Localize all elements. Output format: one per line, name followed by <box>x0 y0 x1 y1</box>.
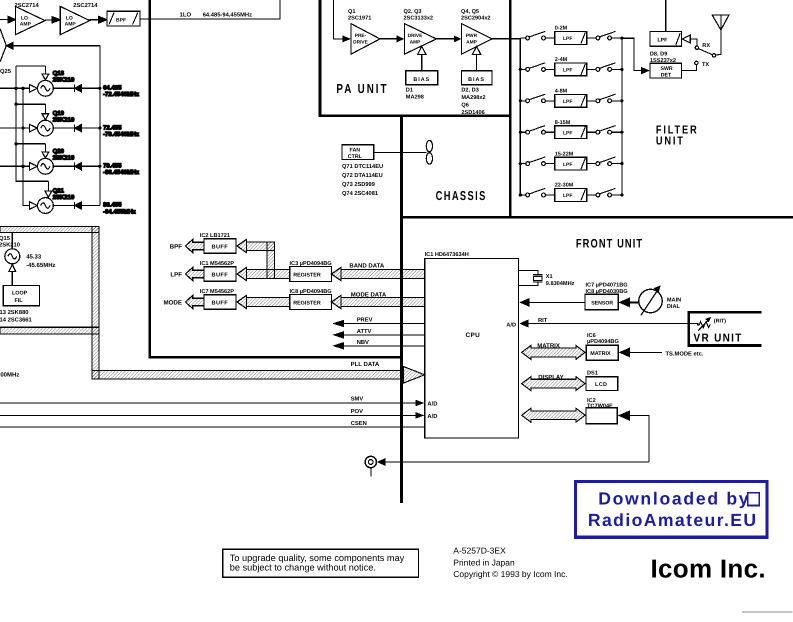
loop filter LOOP FIL box <box>3 286 39 306</box>
svg-text:IC8 µPD4030BG: IC8 µPD4030BG <box>586 289 628 295</box>
svg-text:2-4M: 2-4M <box>555 57 568 63</box>
wire PRE-DRIVE to DRIVE AMP <box>380 35 404 42</box>
wire ATTV with arrow <box>332 329 424 339</box>
watermark downloaded by box <box>576 482 767 538</box>
wire oscillator input bus B <box>23 88 30 205</box>
bus IC2 hatched double arrow <box>522 408 586 422</box>
oscillator Q21 2SK210 <box>30 181 100 213</box>
svg-text:BIAS: BIAS <box>468 77 485 83</box>
svg-text:LPF: LPF <box>563 162 572 168</box>
svg-text:RadioAmateur.EU: RadioAmateur.EU <box>588 510 758 530</box>
wire DRIVE AMP to PWR AMP <box>436 35 461 42</box>
oscillator Q20 2SK210 <box>0 144 100 174</box>
svg-text:2SK210: 2SK210 <box>53 117 75 124</box>
svg-text:A/D: A/D <box>427 413 437 420</box>
svg-text:TS.MODE etc.: TS.MODE etc. <box>666 350 704 357</box>
swr detector SWR DET box <box>620 37 681 79</box>
svg-text:A/D: A/D <box>427 400 437 407</box>
svg-text:BPF: BPF <box>116 17 126 23</box>
node bus junction dots <box>519 131 624 134</box>
oscillator Q18 2SK210 <box>0 66 100 96</box>
svg-text:DIAL: DIAL <box>667 304 681 310</box>
filter BPF box <box>107 11 140 26</box>
svg-text:RX: RX <box>702 43 710 49</box>
label Q21 2SK210 <box>53 187 75 201</box>
svg-text:2SK210: 2SK210 <box>53 77 75 84</box>
label frequency 86.455 <box>103 202 136 216</box>
svg-text:Printed in Japan: Printed in Japan <box>453 557 515 567</box>
switch RX/antenna <box>690 30 721 57</box>
diode D8 D9 open arrow <box>682 35 690 43</box>
svg-text:8-15M: 8-15M <box>555 120 571 126</box>
transistor Q25 partial amp at edge <box>0 29 6 63</box>
bus BPF row hatched band and leg <box>246 242 274 279</box>
svg-text:86.455: 86.455 <box>103 202 122 209</box>
svg-text:IC1 M54562P: IC1 M54562P <box>200 261 234 267</box>
wire chassis bottom border <box>400 216 793 219</box>
PLL unit hatched border right band <box>92 226 99 379</box>
svg-text:SWR: SWR <box>661 66 673 72</box>
crystal X1 9.8304MHz <box>519 270 543 285</box>
svg-text:-72.4549MHz: -72.4549MHz <box>103 91 139 98</box>
svg-text:D8, D9: D8, D9 <box>650 52 667 58</box>
wire PA unit left border <box>318 0 321 117</box>
label Q15 2SK210 <box>0 235 20 249</box>
svg-text:be subject to change without n: be subject to change without notice. <box>230 562 376 572</box>
wire filter unit left border <box>509 0 512 217</box>
svg-text:4-8M: 4-8M <box>555 89 568 95</box>
svg-text:IC2 LB1721: IC2 LB1721 <box>200 233 230 239</box>
wire SMV <box>0 396 437 408</box>
buffer BUFF BPF row <box>185 239 246 253</box>
svg-text:MODE: MODE <box>163 299 182 306</box>
label 45.33 -45.65MHz <box>26 254 55 269</box>
label frequency 72.455 <box>103 124 139 138</box>
svg-text:Q21: Q21 <box>53 187 65 194</box>
label Q2, Q3 2SC3133x2 <box>404 9 434 22</box>
svg-text:FRONT UNIT: FRONT UNIT <box>576 237 643 250</box>
svg-text:Q18: Q18 <box>53 70 65 77</box>
wire RIT from CPU to VR unit <box>506 318 698 329</box>
bias network box at x=405.8 <box>406 46 438 84</box>
node bus junction dots <box>519 68 624 71</box>
wire NBV with arrow <box>332 340 424 350</box>
svg-text:AMP: AMP <box>466 40 477 46</box>
svg-text:-94.455MHz: -94.455MHz <box>103 208 136 215</box>
wire PREV with arrow <box>332 318 424 328</box>
filter LPF 8-15M with switches <box>520 126 622 139</box>
bias network box at x=461.4 <box>461 46 492 84</box>
svg-text:BAND DATA: BAND DATA <box>349 263 384 270</box>
svg-text:Q4, Q5: Q4, Q5 <box>461 9 479 15</box>
wire antenna feed from top <box>665 0 667 32</box>
filter LPF 22-30M with switches <box>520 188 622 201</box>
svg-text:TX: TX <box>702 62 709 68</box>
svg-text:72.455: 72.455 <box>103 124 122 131</box>
node bus junction dots <box>519 193 624 196</box>
svg-text:Q15: Q15 <box>0 235 11 242</box>
svg-text:-45.65MHz: -45.65MHz <box>26 262 55 269</box>
wire chassis vertical border <box>400 117 403 503</box>
svg-text:79.455: 79.455 <box>103 163 122 170</box>
svg-text:PA UNIT: PA UNIT <box>336 83 388 98</box>
svg-text:LPF: LPF <box>563 130 572 136</box>
register IC8 <box>246 295 424 310</box>
label A-5257D-3EX Printed in Japan Copyright <box>453 546 567 579</box>
connector output jack <box>365 456 649 476</box>
svg-text:22-30M: 22-30M <box>555 183 574 189</box>
label LO AMP 2 <box>65 15 77 27</box>
svg-text:2SD1406: 2SD1406 <box>461 110 484 116</box>
label Q19 2SK210 <box>53 110 75 124</box>
label frequency 64.485 <box>103 85 139 99</box>
svg-text:Q73 2SD999: Q73 2SD999 <box>342 182 375 188</box>
svg-text:9.8304MHz: 9.8304MHz <box>546 281 575 287</box>
svg-text:MAIN: MAIN <box>667 297 681 303</box>
svg-text:BUFF: BUFF <box>212 300 229 306</box>
svg-text:PLL DATA: PLL DATA <box>351 361 380 368</box>
svg-text:LPF: LPF <box>658 38 668 44</box>
VR unit box border <box>689 312 762 345</box>
svg-text:A-5257D-3EX: A-5257D-3EX <box>453 546 506 556</box>
svg-text:Q14 2SC3661: Q14 2SC3661 <box>0 317 33 324</box>
svg-text:DRIVE: DRIVE <box>353 40 368 46</box>
svg-text:A/D: A/D <box>506 322 516 329</box>
label Q20 2SK210 <box>53 148 75 162</box>
svg-text:FIL: FIL <box>15 298 24 304</box>
svg-text:CSEN: CSEN <box>351 420 367 427</box>
wire arrow into BPF <box>99 17 107 23</box>
svg-text:REGISTER: REGISTER <box>293 300 321 306</box>
svg-text:Q19: Q19 <box>53 110 65 117</box>
svg-text:RIT: RIT <box>538 318 548 324</box>
svg-text:CPU: CPU <box>466 332 481 339</box>
svg-text:Copyright © 1993 by Icom Inc.: Copyright © 1993 by Icom Inc. <box>453 569 567 579</box>
label IC2 TC7W04F <box>587 398 613 410</box>
label Q1 2SC1971 <box>348 9 371 22</box>
label frequency 79.455 <box>103 163 139 177</box>
wire main unit left border <box>149 0 151 357</box>
note box to upgrade quality <box>223 549 419 577</box>
label Q13 2SK880 Q14 2SC3661 <box>0 309 33 324</box>
svg-text:PWR: PWR <box>466 33 478 39</box>
buffer BUFF MODE row <box>185 295 246 309</box>
svg-text:15-22M: 15-22M <box>555 151 574 157</box>
svg-text:LCD: LCD <box>595 382 607 388</box>
main dial with arrow <box>618 285 662 315</box>
svg-text:BPF: BPF <box>170 243 183 250</box>
svg-text:Q13 2SK880: Q13 2SK880 <box>0 309 29 316</box>
fan control FAN CTRL box <box>342 145 426 161</box>
svg-text:1LO: 1LO <box>180 12 192 19</box>
svg-text:IC7 M54562P: IC7 M54562P <box>200 289 234 295</box>
IC2 TC7W04F box <box>586 408 649 462</box>
svg-text:MATRIX: MATRIX <box>590 351 611 357</box>
switch TX <box>682 61 699 70</box>
svg-text:MODE DATA: MODE DATA <box>351 291 387 298</box>
svg-text:IC7 µPD4071BG: IC7 µPD4071BG <box>586 283 628 289</box>
filter LPF antenna box <box>650 32 682 47</box>
wire 1LO output from BPF <box>140 0 280 19</box>
wire input to PRE-DRIVE <box>333 0 342 39</box>
svg-text:IC1 HD6473634H: IC1 HD6473634H <box>425 252 469 258</box>
label 1LO 64.485-94.455MHz <box>180 12 253 19</box>
svg-text:2SC3133x2: 2SC3133x2 <box>404 16 434 22</box>
wire LO amp2 to BPF <box>90 19 99 21</box>
svg-text:REGISTER: REGISTER <box>293 272 321 278</box>
svg-text:2SK210: 2SK210 <box>53 194 75 201</box>
svg-text:MA298x2: MA298x2 <box>461 95 485 101</box>
display DS1 LCD box <box>586 377 618 391</box>
PLL unit hatched border top band <box>0 226 99 232</box>
svg-text:IC6: IC6 <box>587 333 596 339</box>
label D8, D9 1SS237x2 <box>650 52 676 64</box>
svg-text:AMP: AMP <box>65 22 77 28</box>
fan motor symbol <box>426 140 432 164</box>
artifact line bottom right <box>742 611 793 613</box>
svg-text:VR UNIT: VR UNIT <box>694 332 743 345</box>
wire arrow into LO amp U? <box>8 16 15 22</box>
svg-text:X1: X1 <box>546 274 553 280</box>
svg-text:MATRIX: MATRIX <box>537 342 560 349</box>
label Q71-Q74 fan transistors <box>342 164 383 197</box>
IC MATRIX IC6 box <box>586 345 662 360</box>
filter LPF 15-22M with switches <box>520 157 622 170</box>
resistor RIT potentiometer <box>697 317 711 331</box>
filter LPF 2-4M with switches <box>520 63 622 76</box>
svg-text:64.485-94.455MHz: 64.485-94.455MHz <box>203 12 252 19</box>
label IC6 uPD4094BG <box>587 333 619 345</box>
svg-text:BUFF: BUFF <box>212 272 229 278</box>
svg-text:Q71 DTC114EU: Q71 DTC114EU <box>342 164 383 170</box>
antenna symbol <box>712 15 729 30</box>
wire main unit bottom border <box>149 356 403 358</box>
svg-text:DS1: DS1 <box>587 371 598 377</box>
svg-text:45.33: 45.33 <box>26 254 42 261</box>
svg-text:300MHz: 300MHz <box>0 372 19 379</box>
svg-text:POV: POV <box>351 408 363 415</box>
svg-text:Q72 DTA114EU: Q72 DTA114EU <box>342 173 383 179</box>
svg-text:Icom Inc.: Icom Inc. <box>651 554 766 584</box>
oscillator Q19 2SK210 <box>0 104 100 136</box>
svg-text:DRIVE: DRIVE <box>408 33 423 39</box>
bus PLL DATA hatched band to CPU <box>92 371 403 379</box>
svg-text:FAN: FAN <box>350 148 361 154</box>
svg-text:CHASSIS: CHASSIS <box>436 189 487 203</box>
node junction dots <box>14 87 101 168</box>
svg-text:AMP: AMP <box>410 40 421 46</box>
svg-text:Q74 2SC4081: Q74 2SC4081 <box>342 191 378 197</box>
svg-text:2SC2904x2: 2SC2904x2 <box>461 16 491 22</box>
svg-text:DET: DET <box>661 72 672 78</box>
svg-text:LPF: LPF <box>170 271 182 278</box>
wire arrow into LO amp 2 <box>52 17 60 23</box>
wire CSEN <box>0 420 425 427</box>
svg-text:PREV: PREV <box>357 318 373 324</box>
svg-text:CTRL: CTRL <box>348 154 363 160</box>
svg-text:BUFF: BUFF <box>212 244 229 250</box>
svg-text:µPD4094BG: µPD4094BG <box>587 339 619 345</box>
label bias diodes <box>406 88 424 101</box>
label Q18 2SK210 <box>53 70 75 84</box>
wire POV <box>0 408 437 420</box>
filter LPF 0-2M with switches <box>520 31 622 44</box>
label Q4, Q5 2SC2904x2 <box>461 9 491 22</box>
wire LO amp1 to arrow <box>45 19 52 21</box>
svg-text:AMP: AMP <box>20 22 32 28</box>
svg-text:Q2, Q3: Q2, Q3 <box>404 9 422 15</box>
op-amp LO AMP 1 (2SC2714) <box>15 6 45 34</box>
svg-text:-86.4549MHz: -86.4549MHz <box>103 169 139 176</box>
svg-text:IC3 µPD4094BG: IC3 µPD4094BG <box>290 261 332 267</box>
svg-text:0-2M: 0-2M <box>555 26 568 32</box>
bus MATRIX hatched double arrow <box>522 346 586 360</box>
wire input to LO amp chain <box>0 19 8 21</box>
svg-text:D1: D1 <box>406 88 413 94</box>
svg-text:Q6: Q6 <box>461 103 468 109</box>
node bus junction dots <box>519 99 624 102</box>
wire oscillator output bus <box>99 46 101 206</box>
svg-text:LPF: LPF <box>563 68 572 74</box>
svg-text:SMV: SMV <box>351 396 364 403</box>
svg-text:LPF: LPF <box>563 36 572 42</box>
IC CPU IC1 HD6473634H <box>425 259 519 439</box>
svg-text:-79.4549MHz: -79.4549MHz <box>103 131 139 138</box>
wire filter left bus <box>519 38 521 195</box>
svg-text:2SC1971: 2SC1971 <box>348 16 371 22</box>
svg-text:LO: LO <box>66 15 73 21</box>
label IC7 uPD4071BG IC8 uPD4030BG <box>586 283 628 296</box>
label MAIN DIAL <box>667 297 681 310</box>
svg-text:LPF: LPF <box>563 193 572 199</box>
label LO AMP 1 <box>20 15 32 27</box>
bus DISPLAY hatched double arrow <box>522 377 586 391</box>
svg-text:Downloaded by: Downloaded by <box>598 489 750 509</box>
svg-text:LPF: LPF <box>563 99 572 105</box>
svg-text:2SC2714: 2SC2714 <box>15 2 40 9</box>
transistor amp Q4 Q5 <box>461 24 492 55</box>
wire PWR AMP to filter bus <box>492 38 520 40</box>
label X1 9.8304MHz <box>546 274 575 287</box>
svg-text:2SK210: 2SK210 <box>0 242 20 249</box>
node feedback line to Q25 <box>6 45 100 47</box>
svg-text:LOOP: LOOP <box>12 291 28 297</box>
wire PA unit bottom border <box>319 114 512 117</box>
label bias diodes <box>461 88 485 117</box>
svg-text:PRE-: PRE- <box>355 33 367 39</box>
svg-text:Q20: Q20 <box>53 148 65 155</box>
svg-text:MA298: MA298 <box>406 95 424 101</box>
svg-text:NBV: NBV <box>357 340 369 346</box>
svg-text:Q25: Q25 <box>0 68 12 75</box>
svg-text:DISPLAY: DISPLAY <box>538 374 563 381</box>
node bus junction dots <box>519 162 624 165</box>
PLL unit hatched border bottom band <box>0 327 99 334</box>
svg-text:IC8 µPD4094BG: IC8 µPD4094BG <box>290 289 332 295</box>
svg-text:2SC2714: 2SC2714 <box>73 2 98 9</box>
svg-text:BIAS: BIAS <box>413 77 430 83</box>
svg-text:UNIT: UNIT <box>656 135 685 148</box>
oscillator Q15 2SK210 <box>5 233 20 286</box>
svg-text:D2, D3: D2, D3 <box>461 88 478 94</box>
svg-text:ATTV: ATTV <box>357 329 372 335</box>
svg-text:TC7W04F: TC7W04F <box>587 403 613 409</box>
op-amp LO AMP 2 (2SC2714) <box>60 6 89 34</box>
svg-text:LO: LO <box>21 15 28 21</box>
svg-text:64.485: 64.485 <box>103 85 122 92</box>
buffer BUFF LPF row <box>185 267 246 281</box>
wire filter right bus <box>621 38 623 195</box>
sensor SENSOR box <box>519 294 618 310</box>
svg-text:(RIT): (RIT) <box>714 319 726 325</box>
wire varactor control bus A <box>16 66 48 181</box>
svg-text:2SK210: 2SK210 <box>53 155 75 162</box>
label FILTER UNIT <box>656 123 699 147</box>
svg-text:Q1: Q1 <box>348 9 355 15</box>
transistor amp Q1 <box>351 24 380 55</box>
register IC3 <box>246 267 424 282</box>
filter LPF 4-8M with switches <box>520 94 622 107</box>
svg-text:SENSOR: SENSOR <box>591 301 613 307</box>
transistor amp Q2 Q3 <box>404 24 436 55</box>
